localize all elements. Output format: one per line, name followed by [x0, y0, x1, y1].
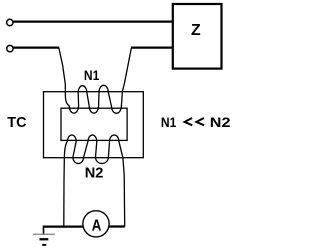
- svg-text:TC: TC: [7, 115, 26, 131]
- svg-text:N2: N2: [85, 165, 104, 181]
- svg-text:A: A: [92, 218, 102, 235]
- less-than sign 2: [196, 118, 204, 125]
- ground stem: [43, 226, 45, 235]
- wire from terminal 2: [13, 46, 59, 48]
- transformer TC outer case: [44, 92, 144, 158]
- ground bar 2: [40, 238, 49, 240]
- svg-text:N1: N1: [84, 67, 99, 83]
- svg-text:N2: N2: [210, 115, 231, 131]
- wire bottom left from ground to ammeter: [43, 226, 85, 228]
- less-than sign 1: [185, 118, 193, 125]
- svg-text:Z: Z: [191, 22, 201, 39]
- transformer core: [61, 108, 127, 140]
- ammeter A: [83, 211, 109, 237]
- ground bar 1: [33, 233, 55, 235]
- box Z (load): [173, 4, 222, 69]
- wire from Z lower terminal: [131, 46, 174, 48]
- svg-text:N1: N1: [161, 114, 176, 130]
- wire bottom right from ammeter to N2 lead: [107, 225, 125, 227]
- wire top from terminal 1 to Z: [13, 21, 174, 23]
- winding N1 with leads: [59, 48, 132, 114]
- ground bar 3: [42, 244, 46, 246]
- winding N2 with leads: [64, 135, 125, 228]
- terminal input 2: [7, 45, 13, 51]
- terminal input 1: [7, 19, 13, 25]
